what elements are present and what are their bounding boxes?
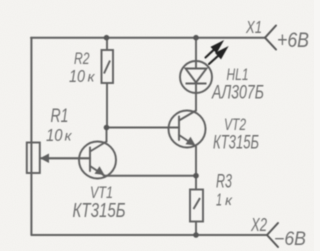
svg-text:−6В: −6В bbox=[274, 229, 306, 250]
svg-text:+6В: +6В bbox=[277, 28, 309, 52]
svg-text:R1: R1 bbox=[51, 105, 69, 127]
svg-text:X1: X1 bbox=[245, 17, 262, 37]
wire top +6V rail bbox=[31, 37, 265, 39]
svg-text:1: 1 bbox=[216, 190, 222, 210]
node HL1 anode on +6V rail bbox=[193, 35, 199, 41]
node R2 top on +6V rail bbox=[104, 35, 110, 41]
node B VT2 emitter/R3 top bbox=[193, 173, 199, 179]
wire emitter rail VT1-VT2-R3 bbox=[104, 175, 196, 177]
resistor R2 bbox=[102, 38, 114, 128]
svg-text:10: 10 bbox=[69, 66, 85, 86]
wire left rail bbox=[30, 38, 32, 235]
wire node A to VT2 base bbox=[107, 127, 179, 129]
transistor VT2 bbox=[169, 93, 206, 176]
svg-text:КТ315Б: КТ315Б bbox=[213, 132, 259, 154]
terminal X2 bbox=[267, 223, 278, 247]
node R3 bottom on -6V rail bbox=[193, 232, 199, 238]
resistor R3 bbox=[190, 176, 203, 235]
svg-text:КТ315Б: КТ315Б bbox=[73, 200, 126, 222]
node A R2/VT1 collector/VT2 base bbox=[104, 125, 110, 131]
terminal X1 bbox=[265, 26, 276, 50]
wire bottom -6V rail bbox=[31, 234, 267, 236]
svg-text:X2: X2 bbox=[250, 214, 267, 235]
wire VT1 base from R1 wiper bbox=[40, 157, 90, 159]
svg-text:10: 10 bbox=[46, 125, 63, 145]
svg-text:АЛ307Б: АЛ307Б bbox=[211, 82, 264, 104]
LED light emission arrows bbox=[206, 43, 227, 65]
potentiometer R1 bbox=[27, 143, 90, 174]
LED HL1 bbox=[180, 38, 212, 93]
transistor VT1 bbox=[79, 128, 116, 179]
